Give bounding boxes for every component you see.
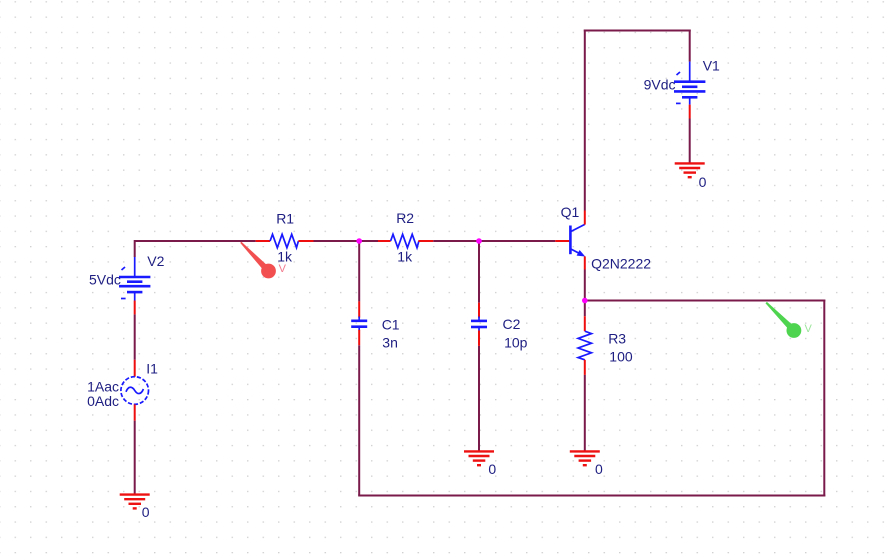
svg-text:R3: R3 <box>608 331 626 347</box>
svg-text:C1: C1 <box>382 317 400 333</box>
wire C1 bottom stem <box>358 345 360 495</box>
ground under R3 <box>570 451 600 465</box>
label C2 <box>503 316 521 332</box>
svg-text:V: V <box>805 323 813 335</box>
svg-text:1k: 1k <box>397 248 413 264</box>
voltage probe marker green <box>766 302 802 338</box>
svg-text:0: 0 <box>142 504 150 520</box>
wire C2 bottom stem <box>478 346 480 451</box>
value 100 <box>609 349 633 365</box>
node B junction <box>476 238 482 244</box>
value 1Aac <box>87 378 119 394</box>
node A junction <box>356 238 362 244</box>
wire V1 to ground <box>689 119 691 164</box>
wire V2 top corner vertical <box>134 240 136 257</box>
label V2 <box>147 253 164 269</box>
label 0 ground V1 <box>699 174 707 190</box>
label R2 <box>396 210 414 226</box>
label R3 <box>608 331 626 347</box>
wire node C to R3 <box>584 301 586 317</box>
wire right rail <box>823 300 825 497</box>
resistor R2 <box>378 234 433 247</box>
svg-text:3n: 3n <box>382 335 398 351</box>
label 0 ground C2 <box>488 461 496 477</box>
value 9Vdc <box>644 77 676 93</box>
ground under I1 <box>120 495 150 509</box>
ground under V1 <box>675 163 705 177</box>
svg-text:C2: C2 <box>503 316 521 332</box>
wire C1 top stem <box>358 241 360 301</box>
svg-text:5Vdc: 5Vdc <box>89 271 121 287</box>
label C1 <box>382 317 400 333</box>
value 1k R1 <box>277 248 293 264</box>
voltage source V2 <box>119 257 150 314</box>
wire V1 top drop <box>689 30 691 62</box>
svg-text:100: 100 <box>609 349 633 365</box>
voltage source V1 <box>674 62 705 119</box>
svg-text:10p: 10p <box>504 334 528 350</box>
value 1k R2 <box>397 248 413 264</box>
wire emitter rail <box>585 300 826 302</box>
value 5Vdc <box>89 271 121 287</box>
svg-text:R1: R1 <box>276 211 294 227</box>
label Q1 <box>561 204 580 220</box>
svg-text:R2: R2 <box>396 210 414 226</box>
svg-text:1Aac: 1Aac <box>87 378 119 394</box>
wire top rail horizontal <box>584 30 691 32</box>
wire R1 to node A <box>314 240 359 242</box>
label 0 ground R3 <box>595 461 603 477</box>
value 10p <box>504 334 528 350</box>
value 0Adc <box>87 393 119 409</box>
wire collector rail vertical <box>584 30 586 211</box>
capacitor C2 <box>471 303 487 346</box>
wire node A to R2 <box>359 240 378 242</box>
svg-text:Q1: Q1 <box>561 204 580 220</box>
wire I1 to ground <box>134 421 136 495</box>
label R1 <box>276 211 294 227</box>
svg-text:0Adc: 0Adc <box>87 393 119 409</box>
resistor R1 <box>256 234 314 247</box>
wire bottom rail <box>358 495 825 497</box>
ground under C2 <box>464 451 494 465</box>
current source I1 <box>121 360 149 421</box>
transistor Q1 <box>555 211 585 270</box>
svg-text:9Vdc: 9Vdc <box>644 77 676 93</box>
wire C2 top stem <box>478 241 480 303</box>
label V probe red <box>279 263 287 275</box>
svg-text:V: V <box>279 263 287 275</box>
wire R3 to ground <box>584 375 586 451</box>
wire emitter stem <box>584 270 586 301</box>
wire V2 top horizontal <box>135 240 256 242</box>
voltage probe marker red <box>240 242 276 279</box>
wire R2 to node B <box>433 240 479 242</box>
resistor R3 <box>578 316 591 375</box>
value 3n <box>382 335 398 351</box>
svg-text:V1: V1 <box>703 58 720 74</box>
svg-text:0: 0 <box>699 174 707 190</box>
label V probe green <box>805 323 813 335</box>
svg-text:I1: I1 <box>146 360 158 376</box>
label V1 <box>703 58 720 74</box>
label I1 <box>146 360 158 376</box>
wire V2 to I1 <box>134 314 136 359</box>
node C junction <box>582 298 588 304</box>
svg-text:Q2N2222: Q2N2222 <box>591 256 651 272</box>
capacitor C1 <box>351 301 367 345</box>
label 0 ground I1 <box>142 504 150 520</box>
svg-text:V2: V2 <box>147 253 164 269</box>
svg-text:0: 0 <box>595 461 603 477</box>
svg-text:0: 0 <box>488 461 496 477</box>
value Q2N2222 <box>591 256 651 272</box>
wire node B to Q1 base <box>479 240 555 242</box>
